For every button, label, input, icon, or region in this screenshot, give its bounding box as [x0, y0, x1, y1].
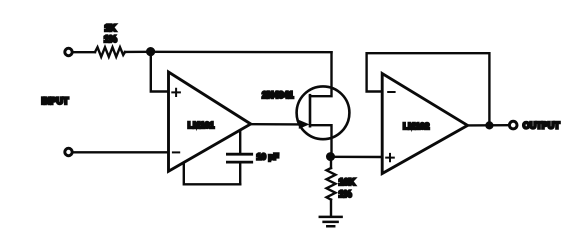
svg-text:1%: 1%: [104, 34, 117, 44]
resistor R2 bottom lead to ground: [330, 200, 332, 216]
Q1 gate arrowhead: [299, 120, 310, 129]
op-amp U2 LM102 (triangle body): [382, 74, 467, 174]
transistor Q1 2N4341 (JFET envelope circle): [297, 86, 350, 139]
Q1 drain hook (to top rail): [310, 52, 332, 96]
node A (junction dot at R1 / top rail / LM101 + input): [146, 47, 155, 56]
capacitor C1 top plate: [227, 153, 251, 156]
capacitor C1 bottom plate: [227, 161, 251, 164]
svg-text:1%: 1%: [339, 189, 352, 199]
wire: U2 output to output terminal: [468, 124, 509, 127]
wire: U2 feedback loop (output to - input): [367, 53, 490, 125]
input terminal (bottom input jack): [65, 148, 72, 155]
wire: node A down and right to LM101 + input: [151, 52, 169, 92]
wire: top input terminal to resistor R1: [73, 51, 95, 53]
output terminal (jack): [509, 121, 517, 129]
op-amp U2 + input pin mark: [386, 154, 394, 161]
resistor R2 (10K 1%) lead from node B: [330, 157, 332, 168]
capacitor C1 (10 pF) top lead from U1 edge: [239, 131, 241, 153]
op-amp U2 - input pin mark: [388, 91, 394, 93]
wire: bottom input terminal to LM101 - input: [73, 151, 168, 153]
op-amp U1 + input pin mark: [172, 89, 180, 96]
op-amp U1 - input pin mark: [173, 151, 179, 153]
wire: feedback stub from U1 lower edge down to capacitor bottom rail: [184, 164, 240, 185]
svg-text:LM101: LM101: [188, 120, 215, 130]
svg-text:10K: 10K: [339, 177, 356, 187]
svg-text:OUTPUT: OUTPUT: [523, 120, 561, 130]
resistor R1 (1K 1%): [95, 47, 125, 57]
node C (junction dot at U2 output / feedback): [485, 121, 493, 129]
Q1 channel bar: [309, 95, 312, 126]
wire: top rail from node A to Q1 drain: [151, 51, 332, 54]
resistor R2 zigzag: [327, 168, 336, 200]
ground symbol: [320, 217, 342, 226]
wire: node B to LM102 + input: [331, 156, 383, 159]
svg-text:LM102: LM102: [403, 121, 430, 131]
input terminal (top input jack): [65, 48, 72, 55]
wire: R1 to node A: [125, 51, 148, 54]
svg-text:2N4341: 2N4341: [262, 90, 294, 100]
svg-text:10 pF: 10 pF: [257, 151, 279, 161]
node B (junction dot: Q1 source / R2 / U2 + input): [326, 152, 335, 161]
capacitor C1 bottom lead: [239, 163, 241, 184]
svg-text:1K: 1K: [105, 23, 117, 33]
op-amp U1 LM101 (triangle body): [169, 72, 251, 171]
Q1 source hook (down to node B): [310, 125, 332, 156]
svg-text:INPUT: INPUT: [42, 96, 70, 106]
wire: U1 output to Q1 gate: [251, 123, 301, 126]
